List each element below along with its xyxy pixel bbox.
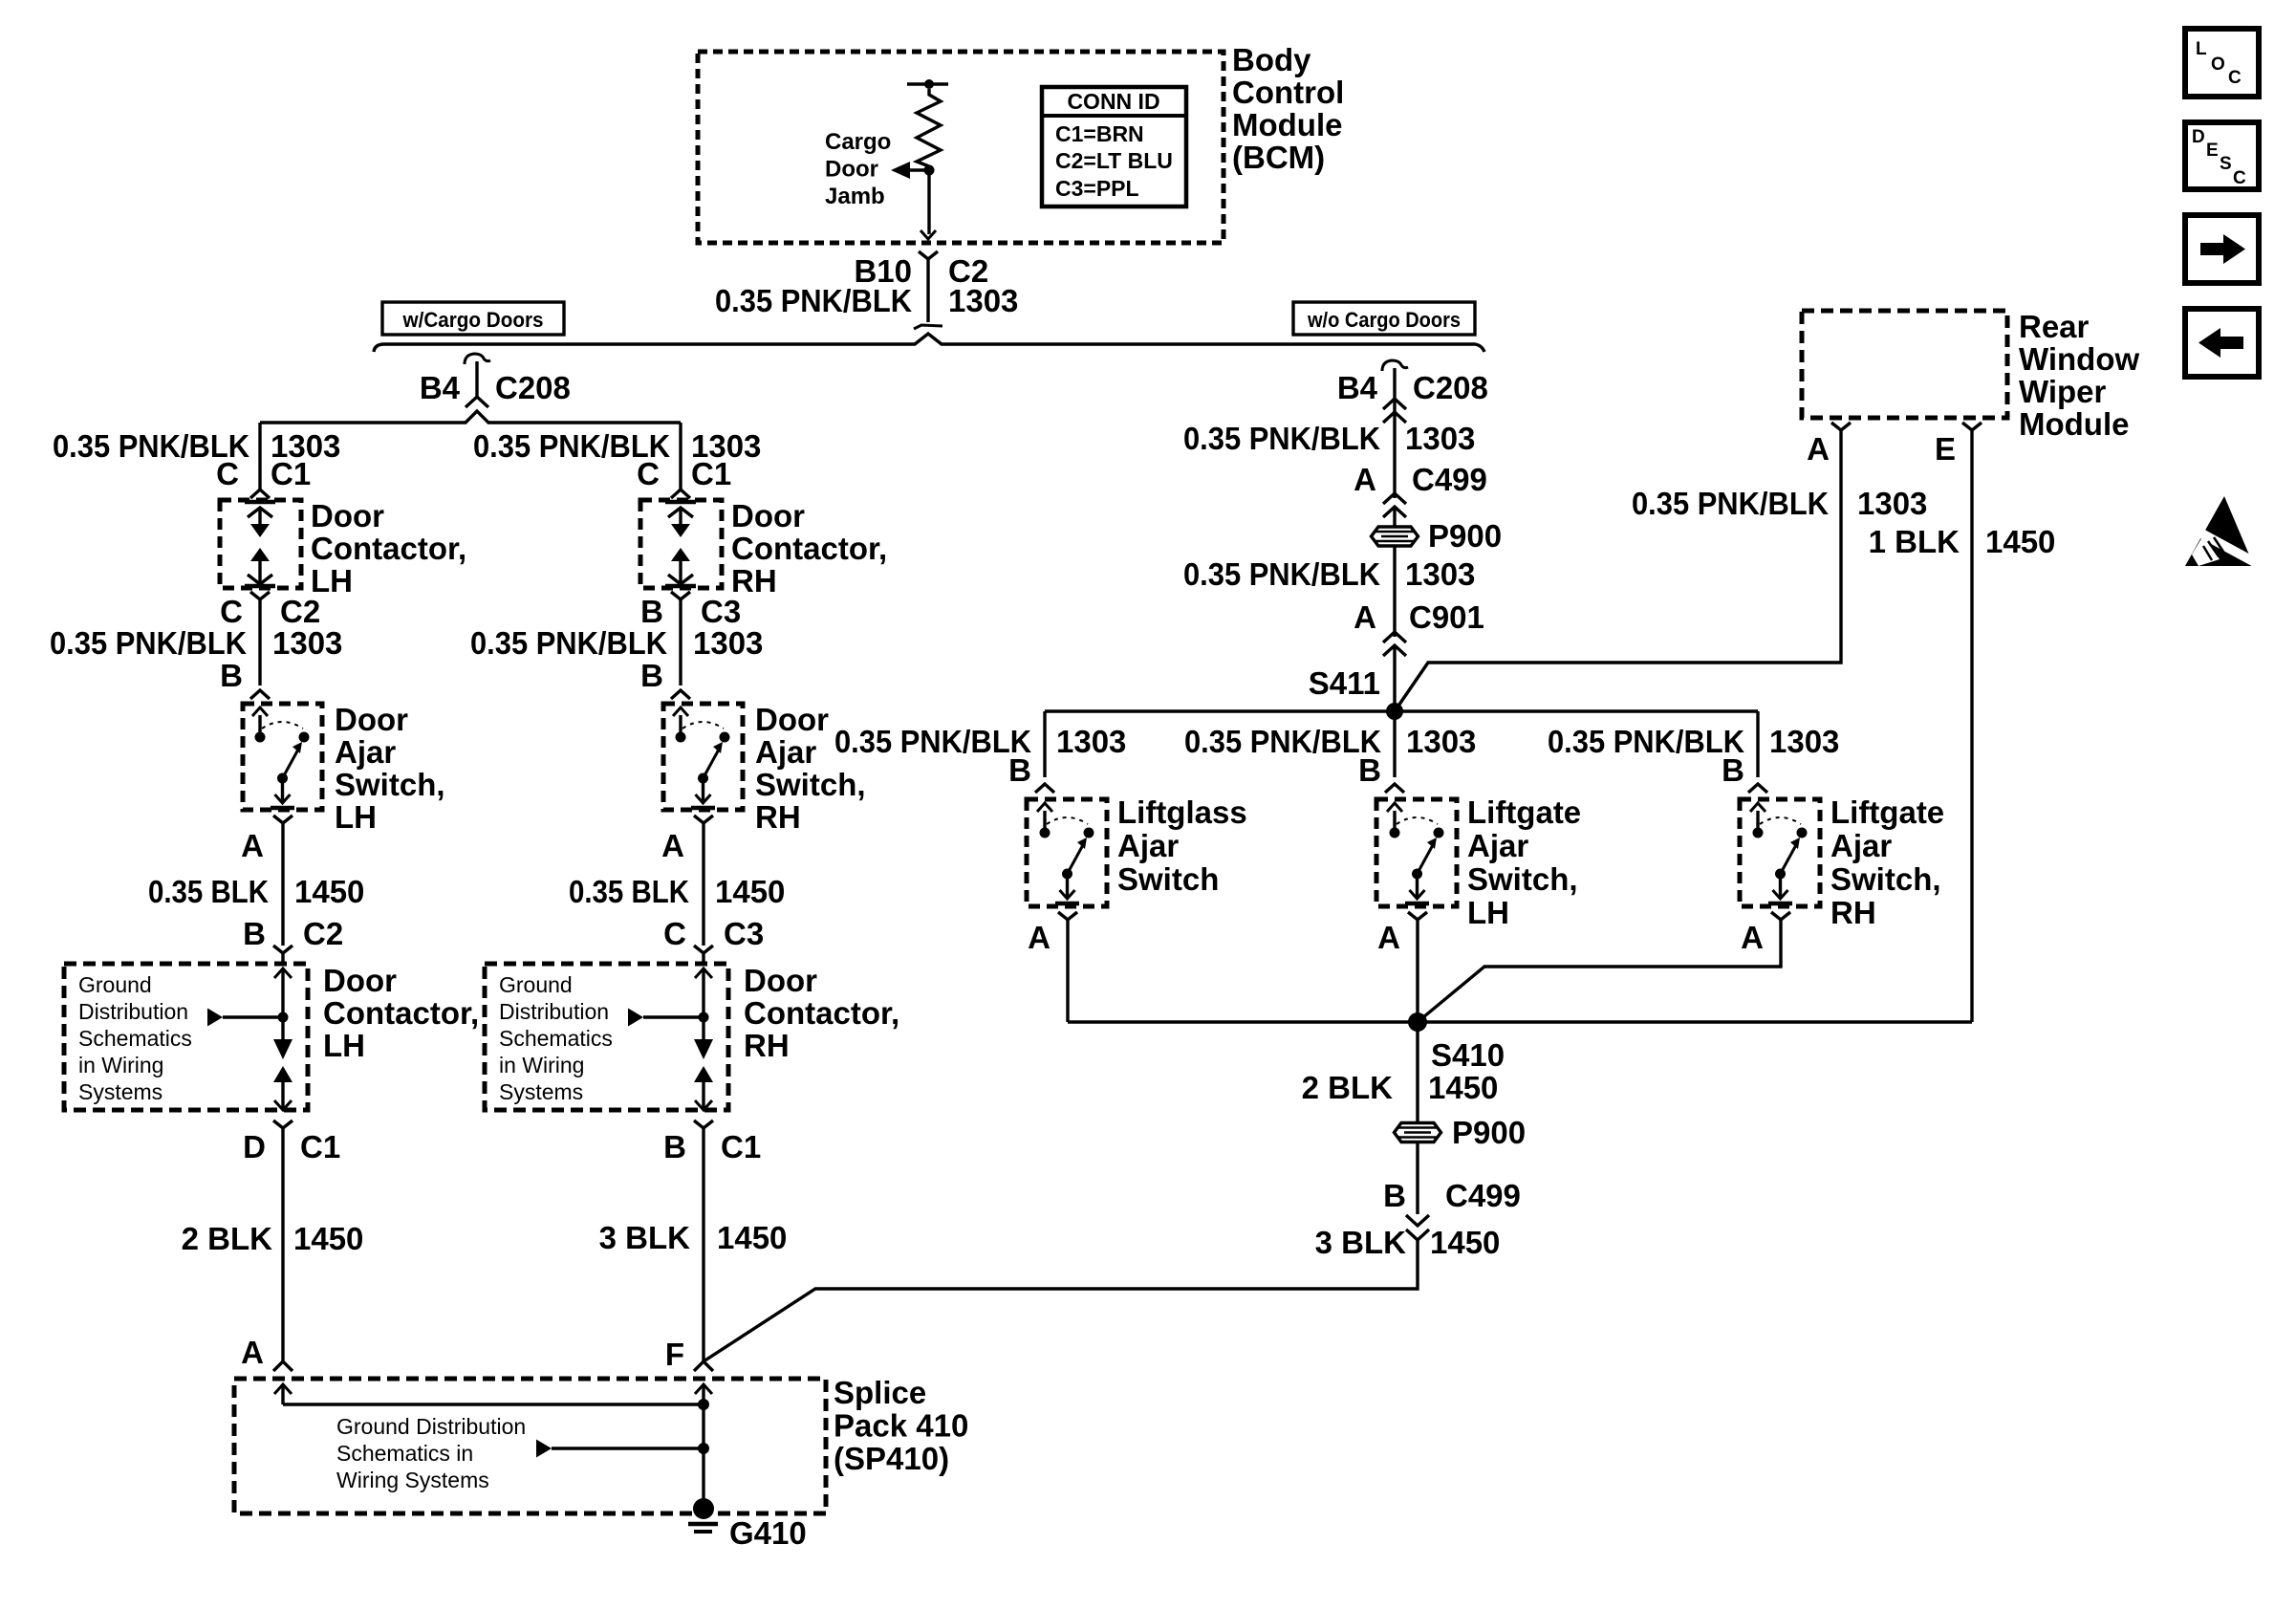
svg-text:1450: 1450	[293, 1221, 363, 1256]
svg-text:1303: 1303	[1405, 556, 1475, 592]
node: junction dot at resistor bottom / tap	[924, 165, 935, 176]
svg-text:C: C	[663, 916, 686, 951]
connector: female below Door Ajar Switch RH	[694, 816, 713, 823]
svg-text:1303: 1303	[1769, 724, 1839, 759]
svg-text:A: A	[1354, 599, 1376, 635]
svg-text:0.35 PNK/BLK: 0.35 PNK/BLK	[1184, 724, 1381, 759]
svg-text:1303: 1303	[1857, 486, 1927, 521]
connector C3: female below Door Contactor RH	[671, 592, 690, 599]
svg-text:C: C	[2228, 68, 2242, 88]
svg-text:C208: C208	[1413, 370, 1488, 405]
svg-text:0.35 PNK/BLK: 0.35 PNK/BLK	[834, 724, 1031, 759]
wire: P900 to C499 pin B	[1416, 1142, 1419, 1214]
svg-text:C: C	[637, 456, 660, 491]
connector: female pin A of Rear Window Wiper Module	[1831, 423, 1851, 430]
connector C2 pin B10: female half below BCM	[919, 251, 938, 259]
wire: BLK 1450 ground wire down to Splice Pack (RH)	[702, 1137, 704, 1361]
label box: w/Cargo Doors	[382, 302, 564, 335]
svg-text:B: B	[1358, 752, 1381, 788]
connector C499 pin B: male double chevron pointing down	[1406, 1215, 1429, 1226]
ground: G410 ground symbol	[693, 1498, 714, 1519]
connector: female below Liftgate RH Ajar Switch	[1771, 912, 1790, 920]
connector C499: male double chevron	[1383, 493, 1406, 504]
wire: cargo-door branch bus to LH and RH door contactors (y=442)	[260, 411, 681, 423]
wire: S411 bus drop to Liftglass Ajar Switch	[1043, 711, 1046, 777]
wire: drop to Door Contactor LH	[258, 423, 261, 490]
svg-text:C1: C1	[691, 456, 731, 491]
component box: Door Ajar Switch LH	[243, 704, 322, 810]
wire: 3 BLK from C499 down and left to Splice Pack pin F	[704, 1240, 1418, 1361]
svg-text:A: A	[241, 828, 264, 863]
component box: Door Ajar Switch RH	[663, 704, 743, 810]
icon: ESD electrostatic discharge warning triangle	[2185, 496, 2254, 566]
splice P900: pass-through grommet (lower)	[1395, 1123, 1441, 1142]
connector: male chevron into Door Ajar Switch RH	[671, 690, 690, 699]
wire: 0.35 BLK from Door Ajar Switch RH to lower Door Contactor RH	[702, 823, 704, 946]
svg-text:B: B	[663, 1129, 686, 1164]
connector C1: female below lower Door Contactor LH	[273, 1120, 292, 1128]
connector: male chevron into Liftglass Ajar Switch	[1035, 784, 1054, 793]
svg-text:1303: 1303	[1406, 724, 1476, 759]
svg-text:S410: S410	[1431, 1037, 1505, 1073]
connector C1: male chevron into Door Contactor LH	[250, 490, 270, 498]
svg-text:3 BLK: 3 BLK	[1315, 1225, 1407, 1260]
connector C1: female below lower Door Contactor RH	[694, 1120, 713, 1128]
wire: C901 down to splice S411	[1393, 645, 1396, 711]
contactor symbol: lower Door Contactor LH	[274, 968, 292, 978]
svg-text:B: B	[640, 594, 663, 629]
component box: Rear Window Wiper Module	[1802, 311, 2007, 418]
svg-text:B: B	[1383, 1178, 1406, 1213]
wire: drop to Door Contactor RH	[679, 423, 682, 490]
svg-text:B: B	[220, 658, 243, 693]
node: splice S411 junction dot	[1386, 703, 1403, 720]
wire: main bus w/Cargo & w/o Cargo Doors (y=360)	[374, 334, 1484, 352]
connector: female at top of lower Door Contactor LH	[273, 946, 292, 953]
svg-text:B: B	[1722, 752, 1744, 788]
svg-text:1450: 1450	[717, 1220, 787, 1255]
wire: Liftgate RH Ajar Switch pin A down-left to S410	[1418, 920, 1781, 1022]
svg-text:1450: 1450	[715, 874, 785, 909]
svg-text:B4: B4	[1337, 370, 1378, 405]
svg-text:1450: 1450	[1428, 1070, 1498, 1105]
component box: Ground Distribution reference w/ Door Contactor RH	[485, 964, 728, 1110]
connector: female below Liftglass Ajar Switch	[1058, 912, 1077, 920]
arrow: ground distribution reference pointer in Splice Pack	[536, 1440, 552, 1458]
svg-text:B: B	[243, 916, 266, 951]
svg-text:1303: 1303	[948, 283, 1018, 318]
svg-text:C1: C1	[300, 1129, 340, 1164]
contactor symbol: Door Contactor RH	[665, 500, 696, 505]
wire: pin A entry arrow inside Splice Pack	[274, 1384, 292, 1394]
connector C901: male double chevron	[1383, 632, 1406, 642]
component box: Splice Pack 410 (SP410)	[234, 1379, 826, 1513]
node: splice junction dot (upper)	[698, 1399, 709, 1410]
svg-text:1303: 1303	[693, 625, 763, 661]
svg-text:0.35 BLK: 0.35 BLK	[569, 874, 689, 909]
svg-text:A: A	[1377, 920, 1400, 955]
svg-text:w/Cargo Doors: w/Cargo Doors	[402, 308, 544, 332]
component box: Liftgate RH Ajar Switch	[1740, 799, 1820, 906]
svg-text:E: E	[2206, 141, 2219, 161]
svg-text:0.35 PNK/BLK: 0.35 PNK/BLK	[1548, 724, 1744, 759]
svg-text:C3: C3	[724, 916, 764, 951]
svg-text:C208: C208	[495, 370, 571, 405]
wire: S411 bus drop to Liftgate RH Ajar Switch	[1756, 711, 1759, 777]
connector C208 pin B4 (w/o Cargo Doors): female hook	[1382, 360, 1408, 371]
svg-text:1450: 1450	[1985, 524, 2055, 559]
svg-text:C901: C901	[1409, 599, 1484, 635]
svg-text:2 BLK: 2 BLK	[1302, 1070, 1394, 1105]
svg-text:A: A	[241, 1335, 264, 1370]
svg-text:S411: S411	[1309, 665, 1380, 701]
svg-text:P900: P900	[1452, 1115, 1526, 1150]
arrow: tap arrow pointing left to Cargo Door Jamb label	[910, 168, 929, 171]
wire: 0.35 BLK from Door Ajar Switch LH to lower Door Contactor LH	[281, 823, 284, 946]
svg-text:L: L	[2196, 39, 2207, 59]
wire: splice bus from A to F inside Splice Pack	[283, 1403, 704, 1405]
wire: splice pack stem down to ground G410	[702, 1404, 704, 1509]
svg-text:C2=LT BLU: C2=LT BLU	[1055, 148, 1173, 173]
wire: BCM internal wire from tap down to pin B10 with arrowhead	[927, 170, 930, 234]
svg-text:C: C	[220, 594, 243, 629]
svg-text:0.35 BLK: 0.35 BLK	[148, 874, 269, 909]
svg-text:G410: G410	[729, 1515, 807, 1551]
svg-text:C499: C499	[1412, 462, 1487, 497]
svg-text:0.35 PNK/BLK: 0.35 PNK/BLK	[470, 625, 667, 661]
component box: Door Contactor RH (top)	[640, 500, 722, 588]
svg-text:P900: P900	[1428, 518, 1502, 554]
connector: male chevron into Liftgate RH Ajar Switch	[1748, 784, 1767, 793]
svg-text:0.35 PNK/BLK: 0.35 PNK/BLK	[1632, 486, 1829, 521]
connector C208 (w/o side): male double chevron	[1383, 399, 1406, 409]
wire: C499 to P900 grommet	[1393, 507, 1396, 527]
svg-text:F: F	[665, 1337, 684, 1372]
wire: C208 to C499	[1393, 418, 1396, 498]
component box: Ground Distribution reference w/ Door Contactor LH	[64, 964, 308, 1110]
connector: female below Door Ajar Switch LH	[273, 816, 292, 823]
node: splice S410 junction dot	[1408, 1012, 1427, 1032]
node: junction dot on contactor wire (LH)	[278, 1012, 289, 1023]
icon box: back arrow	[2185, 309, 2259, 377]
svg-text:1303: 1303	[1056, 724, 1126, 759]
svg-text:CONN ID: CONN ID	[1067, 89, 1159, 114]
svg-text:1303: 1303	[1405, 421, 1475, 456]
wire: pin F entry arrow inside Splice Pack	[695, 1384, 712, 1394]
svg-text:C: C	[2233, 168, 2246, 188]
icon box: LOC	[2185, 29, 2259, 97]
svg-text:D: D	[2192, 127, 2205, 147]
wire: C208 stub (w/o side)	[1393, 368, 1396, 418]
svg-text:E: E	[1935, 431, 1956, 467]
connector: female at top of lower Door Contactor RH	[694, 946, 713, 953]
splice P900: pass-through grommet (upper)	[1372, 527, 1419, 546]
svg-text:C3: C3	[701, 594, 741, 629]
wire: ground bus into S410 and to wiper pin E wire (y=1069)	[1068, 1020, 1972, 1023]
connector C208 pin B4 (w/Cargo Doors): female hook	[465, 354, 490, 364]
svg-text:3 BLK: 3 BLK	[599, 1220, 691, 1255]
svg-text:0.35 PNK/BLK: 0.35 PNK/BLK	[1183, 421, 1380, 456]
node: junction dot on contactor wire (RH)	[699, 1012, 709, 1023]
connector: male chevron into Liftgate LH Ajar Switch	[1385, 784, 1404, 793]
svg-text:B: B	[640, 658, 663, 693]
svg-text:C2: C2	[280, 594, 320, 629]
svg-text:C1: C1	[721, 1129, 761, 1164]
svg-text:C499: C499	[1445, 1178, 1521, 1213]
component box: Liftglass Ajar Switch	[1027, 799, 1107, 906]
connector: male chevron pin A into Splice Pack	[273, 1361, 292, 1371]
connector C208 pin B4: male chevron	[466, 397, 488, 407]
svg-text:2 BLK: 2 BLK	[182, 1221, 273, 1256]
wire: Door Contactor LH pin C down to Door Ajar Switch LH	[258, 599, 261, 685]
connector C1: male chevron into Door Contactor RH	[671, 490, 690, 498]
arrow: ground distribution reference pointer (RH)	[628, 1009, 643, 1027]
svg-text:C1=BRN: C1=BRN	[1055, 121, 1144, 146]
wire: Door Contactor RH pin B down to Door Ajar Switch RH	[679, 599, 682, 685]
svg-text:A: A	[1741, 920, 1764, 955]
contactor symbol: Door Contactor LH	[245, 500, 275, 505]
svg-text:0.35 PNK/BLK: 0.35 PNK/BLK	[50, 625, 247, 661]
svg-text:C3=PPL: C3=PPL	[1055, 176, 1139, 201]
svg-text:B: B	[1008, 752, 1031, 788]
wire: Liftgate LH Ajar Switch pin A down to S410	[1416, 920, 1419, 1022]
contactor symbol: lower Door Contactor RH	[695, 968, 712, 978]
table: CONN ID legend box	[1042, 87, 1186, 207]
svg-text:S: S	[2220, 154, 2232, 174]
wire: S411 bus across liftgate ajar switch drops (y=744)	[1045, 709, 1758, 712]
node: splice junction dot (lower)	[698, 1443, 709, 1454]
wire: Liftglass Ajar Switch pin A down to ground bus	[1066, 920, 1069, 1022]
label box: w/o Cargo Doors	[1293, 302, 1475, 335]
svg-text:B4: B4	[420, 370, 461, 405]
connector: female pin E of Rear Window Wiper Module	[1962, 423, 1982, 430]
svg-text:1450: 1450	[294, 874, 364, 909]
wire: S410 down to P900 (2 BLK)	[1416, 1022, 1419, 1122]
svg-text:w/o Cargo Doors: w/o Cargo Doors	[1307, 308, 1461, 332]
svg-text:0.35 PNK/BLK: 0.35 PNK/BLK	[1183, 556, 1380, 592]
switch symbol: Liftgate LH Ajar Switch	[1393, 811, 1396, 833]
svg-text:0.35 PNK/BLK: 0.35 PNK/BLK	[715, 283, 912, 318]
wire: P900 to C901	[1393, 546, 1396, 637]
connector: male chevron into Door Ajar Switch LH	[250, 690, 270, 699]
switch symbol: Liftglass Ajar Switch	[1043, 811, 1046, 833]
component box: Body Control Module (BCM) dashed outline	[698, 52, 1224, 243]
icon box: DESC	[2185, 122, 2259, 189]
component box: Liftgate LH Ajar Switch	[1376, 799, 1457, 906]
connector C2 pin B10: male foot on bus	[914, 325, 942, 329]
component box: Door Contactor LH (top)	[220, 500, 301, 588]
svg-text:1450: 1450	[1430, 1225, 1500, 1260]
svg-text:1 BLK: 1 BLK	[1869, 524, 1960, 559]
svg-text:C1: C1	[271, 456, 311, 491]
svg-text:1303: 1303	[272, 625, 342, 661]
node: junction dot at top of resistor inside BCM	[907, 82, 948, 85]
arrow: ground distribution reference pointer (LH)	[207, 1009, 223, 1027]
resistor: cargo door jamb switch resistance inside BCM	[917, 89, 941, 166]
wire: B4 to C208 stub	[475, 361, 478, 397]
svg-text:A: A	[1028, 920, 1051, 955]
icon box: forward arrow	[2185, 215, 2259, 283]
connector C2: female below Door Contactor LH	[250, 592, 270, 599]
svg-text:A: A	[1807, 431, 1830, 467]
svg-text:A: A	[1354, 462, 1376, 497]
switch symbol: Door Ajar Switch LH	[258, 715, 261, 737]
wire: 1 BLK from wiper pin E down to ground bus	[1970, 437, 1973, 1022]
switch symbol: Door Ajar Switch RH	[679, 715, 682, 737]
wire: BLK 1450 ground wire down to Splice Pack (LH)	[281, 1137, 284, 1361]
svg-text:D: D	[243, 1129, 266, 1164]
switch symbol: Liftgate RH Ajar Switch	[1756, 811, 1759, 833]
svg-text:C: C	[216, 456, 239, 491]
svg-text:O: O	[2211, 54, 2225, 75]
svg-text:C2: C2	[303, 916, 343, 951]
svg-text:A: A	[661, 828, 684, 863]
connector: female below Liftgate LH Ajar Switch	[1408, 912, 1427, 920]
wire: S411 bus drop to Liftgate LH Ajar Switch	[1393, 711, 1396, 777]
connector: male chevron pin F into Splice Pack	[694, 1361, 713, 1371]
wire: 0.35 PNK/BLK from wiper pin A down and left to S411	[1395, 437, 1841, 711]
